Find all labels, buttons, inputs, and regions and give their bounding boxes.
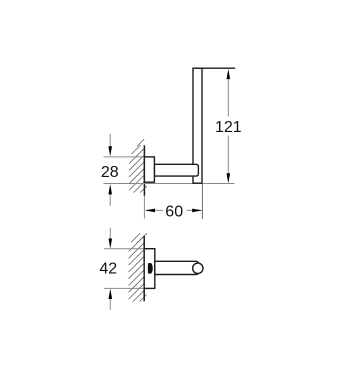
- extension line: 42 dim top: [104, 248, 144, 250]
- extension line: bar top to 121 dim (black, cap extended): [193, 67, 235, 69]
- svg-text:60: 60: [165, 203, 183, 220]
- wall plate bottom view: [144, 249, 155, 289]
- wall line bottom view: [143, 236, 145, 301]
- hatch wall top view: [129, 139, 147, 193]
- svg-text:121: 121: [215, 119, 242, 136]
- hatch wall bottom view: [129, 233, 147, 301]
- dimension 28: upper arrow (outside, pointing down): [109, 134, 111, 147]
- wall line top view: [143, 145, 145, 196]
- extension line: bar right edge down to 60 dim: [201, 184, 203, 220]
- rod base ellipse (dark): [148, 263, 153, 274]
- extension line: wall down to 60 dim: [143, 196, 145, 219]
- dimension 42: lower arrow (outside, pointing up): [109, 299, 111, 310]
- dimension 42: upper arrow (outside, pointing down): [109, 228, 111, 239]
- svg-text:28: 28: [101, 164, 119, 181]
- extension line: common bottom datum (28 dim bottom / 121 dim bottom): [104, 183, 235, 185]
- dimension 28: lower arrow (outside, pointing up): [109, 194, 111, 206]
- extension line: plate top to left (28 dim top): [104, 156, 145, 158]
- vertical bar of holder: [193, 68, 202, 183]
- rod (spare paper holder pin): [155, 261, 199, 274]
- svg-text:42: 42: [99, 261, 117, 278]
- dimension 60: line + arrows: [146, 209, 163, 211]
- dimension 121: line + arrows: [227, 79, 229, 117]
- extension line: 42 dim bottom: [104, 287, 144, 289]
- wall plate top view: [144, 157, 154, 182]
- horizontal arm: [154, 164, 198, 176]
- rod end sphere: [193, 263, 203, 273]
